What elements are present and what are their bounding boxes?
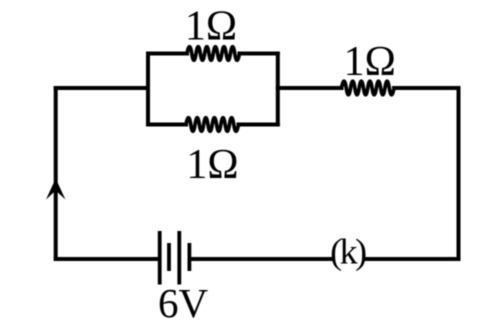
svg-text:1Ω: 1Ω <box>186 142 238 188</box>
svg-text:1Ω: 1Ω <box>185 4 237 50</box>
svg-text:6V: 6V <box>158 280 209 320</box>
svg-text:(k): (k) <box>330 232 366 272</box>
svg-text:1Ω: 1Ω <box>344 39 396 85</box>
